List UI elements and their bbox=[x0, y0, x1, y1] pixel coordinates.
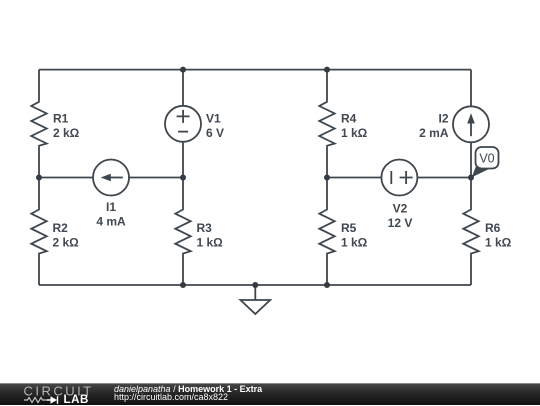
node dot mid branch3 bbox=[324, 175, 330, 181]
wire branch3 upper bbox=[326, 70, 328, 102]
svg-text:R1: R1 bbox=[53, 112, 69, 126]
svg-text:R5: R5 bbox=[341, 221, 357, 235]
wire left branch mid bbox=[38, 146, 40, 209]
footer url text bbox=[114, 392, 228, 402]
V0 net flag bbox=[472, 147, 499, 177]
wire branch3 lower bbox=[326, 254, 328, 285]
svg-text:2 mA: 2 mA bbox=[419, 126, 449, 140]
resistor R3 bbox=[175, 209, 190, 254]
svg-text:R4: R4 bbox=[341, 112, 357, 126]
svg-text:V1: V1 bbox=[206, 112, 221, 126]
wire bottom bus bbox=[39, 284, 471, 286]
node dot top branch2 bbox=[180, 67, 186, 73]
current source I2 bbox=[453, 106, 489, 142]
node dot mid-left A bbox=[36, 175, 42, 181]
svg-text:I2: I2 bbox=[438, 112, 448, 126]
wire branch3 mid bbox=[326, 146, 328, 209]
resistor R5 bbox=[319, 209, 334, 254]
wire branch4 lower bbox=[470, 254, 472, 285]
svg-text:V2: V2 bbox=[393, 202, 408, 216]
ground bbox=[254, 285, 256, 300]
svg-text:6 V: 6 V bbox=[206, 126, 224, 140]
wire branch2 upper bbox=[182, 70, 184, 106]
svg-text:2 kΩ: 2 kΩ bbox=[53, 236, 80, 250]
node dot bottom branch2 bbox=[180, 282, 186, 288]
svg-text:R2: R2 bbox=[53, 221, 69, 235]
footer title text bbox=[114, 384, 262, 394]
svg-text:1 kΩ: 1 kΩ bbox=[485, 236, 512, 250]
svg-text:R6: R6 bbox=[485, 221, 501, 235]
svg-text:12 V: 12 V bbox=[388, 216, 413, 230]
svg-text:I1: I1 bbox=[106, 200, 116, 214]
node dot mid branch4 V0 bbox=[468, 175, 474, 181]
resistor R6 bbox=[463, 209, 478, 254]
wire branch4 upper bbox=[470, 70, 472, 107]
current source I1 bbox=[93, 160, 129, 196]
svg-text:1 kΩ: 1 kΩ bbox=[197, 236, 224, 250]
resistor R2 bbox=[31, 209, 46, 254]
svg-text:R3: R3 bbox=[197, 221, 213, 235]
node dot bottom ground bbox=[252, 282, 258, 288]
svg-text:2 kΩ: 2 kΩ bbox=[53, 126, 80, 140]
wire branch4 mid bbox=[470, 142, 472, 209]
node dot mid branch2 bbox=[180, 175, 186, 181]
resistor R1 bbox=[31, 101, 46, 146]
wire middle-right bus bbox=[327, 177, 471, 179]
svg-text:4 mA: 4 mA bbox=[96, 215, 126, 229]
wire left branch lower bbox=[38, 254, 40, 285]
svg-text:1 kΩ: 1 kΩ bbox=[341, 126, 368, 140]
resistor R4 bbox=[319, 101, 334, 146]
svg-text:1 kΩ: 1 kΩ bbox=[341, 236, 368, 250]
node dot top branch3 bbox=[324, 67, 330, 73]
node dot bottom branch3 bbox=[324, 282, 330, 288]
wire top bus bbox=[39, 69, 471, 71]
svg-text:LAB: LAB bbox=[64, 394, 89, 406]
voltage source V2 bbox=[381, 160, 417, 196]
wire left branch upper bbox=[38, 70, 40, 102]
wire branch2 lower bbox=[182, 254, 184, 285]
wire branch2 mid bbox=[182, 142, 184, 209]
footer bar bbox=[0, 383, 540, 405]
CircuitLab logo bbox=[22, 384, 102, 406]
wire middle-left bus bbox=[39, 177, 183, 179]
voltage source V1 bbox=[165, 106, 201, 142]
svg-text:V0: V0 bbox=[479, 152, 494, 166]
